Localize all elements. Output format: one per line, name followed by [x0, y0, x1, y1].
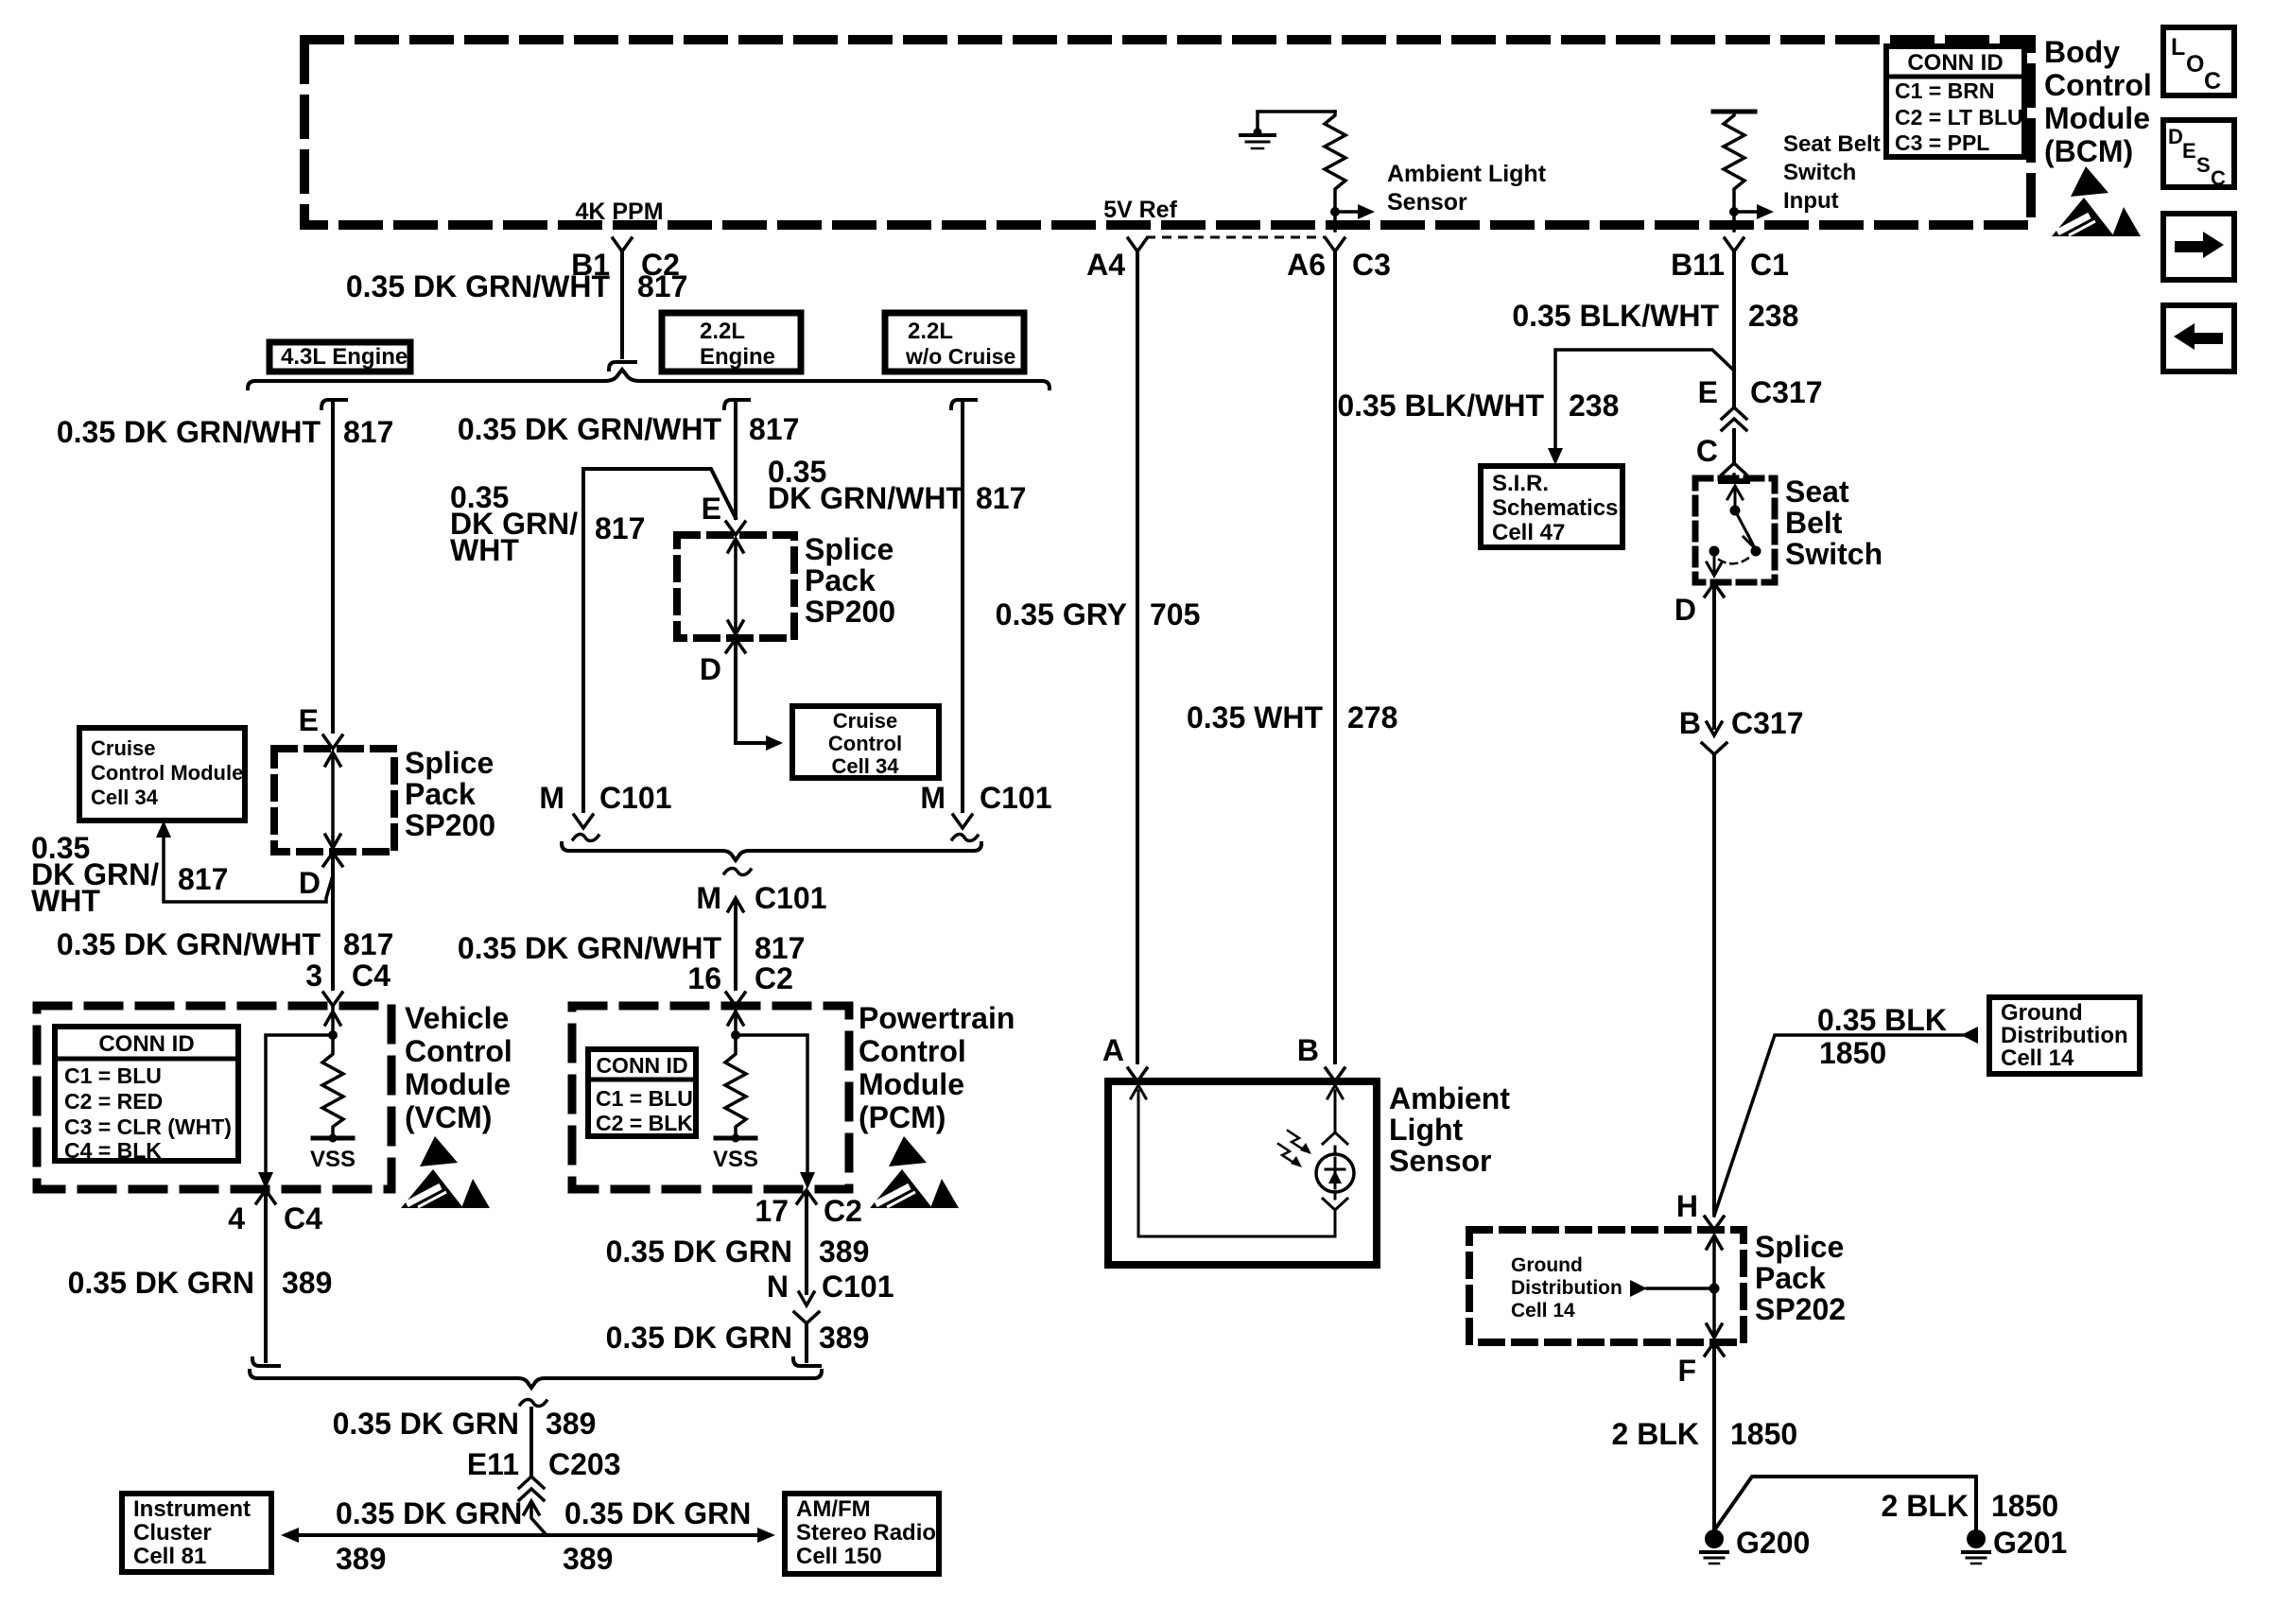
svg-text:389: 389: [819, 1235, 869, 1269]
svg-text:(BCM): (BCM): [2044, 134, 2133, 168]
svg-text:E: E: [1698, 375, 1718, 409]
svg-text:C101: C101: [980, 781, 1052, 815]
svg-text:0.35 WHT: 0.35 WHT: [1187, 700, 1323, 734]
svg-text:817: 817: [749, 412, 799, 446]
svg-text:Cell 81: Cell 81: [133, 1544, 206, 1569]
svg-text:C: C: [2204, 68, 2221, 95]
svg-text:C317: C317: [1750, 375, 1823, 409]
svg-text:Splice: Splice: [1755, 1230, 1844, 1264]
svg-text:C317: C317: [1731, 706, 1804, 740]
svg-text:E: E: [2182, 139, 2196, 163]
svg-text:Cruise: Cruise: [91, 736, 155, 760]
svg-text:Cell 14: Cell 14: [2001, 1045, 2074, 1071]
svg-text:2.2L: 2.2L: [700, 319, 745, 344]
svg-text:C3: C3: [1352, 248, 1391, 282]
svg-text:Control: Control: [859, 1034, 966, 1068]
svg-text:0.35 BLK/WHT: 0.35 BLK/WHT: [1512, 299, 1719, 333]
svg-text:E11: E11: [467, 1447, 519, 1481]
svg-text:Splice: Splice: [405, 746, 494, 780]
svg-text:0.35 DK GRN: 0.35 DK GRN: [606, 1235, 792, 1269]
svg-text:0.35 DK GRN/WHT: 0.35 DK GRN/WHT: [458, 412, 722, 446]
svg-text:Cell 34: Cell 34: [832, 754, 900, 778]
svg-text:F: F: [1677, 1354, 1696, 1388]
svg-text:2 BLK: 2 BLK: [1882, 1489, 1969, 1523]
svg-text:C101: C101: [599, 781, 672, 815]
svg-text:Distribution: Distribution: [2001, 1023, 2128, 1048]
svg-text:4: 4: [228, 1201, 245, 1235]
svg-text:Distribution: Distribution: [1511, 1277, 1622, 1299]
svg-text:O: O: [2186, 51, 2204, 78]
svg-text:C4 = BLK: C4 = BLK: [64, 1138, 162, 1163]
svg-text:0.35 DK GRN/WHT: 0.35 DK GRN/WHT: [57, 927, 321, 961]
svg-text:389: 389: [819, 1321, 869, 1355]
svg-text:Vehicle: Vehicle: [405, 1001, 509, 1035]
svg-text:G201: G201: [1993, 1526, 2067, 1560]
svg-text:Module: Module: [405, 1067, 511, 1101]
svg-text:Cell 34: Cell 34: [91, 786, 159, 809]
svg-text:5V Ref: 5V Ref: [1103, 197, 1177, 223]
svg-text:N: N: [767, 1270, 789, 1304]
svg-text:Ground: Ground: [2001, 1000, 2083, 1026]
svg-text:C1 = BLU: C1 = BLU: [64, 1063, 162, 1088]
svg-text:Control: Control: [405, 1034, 512, 1068]
svg-text:Cluster: Cluster: [133, 1520, 212, 1546]
svg-text:0.35 DK GRN/WHT: 0.35 DK GRN/WHT: [346, 269, 611, 303]
svg-text:Stereo Radio: Stereo Radio: [796, 1520, 936, 1546]
svg-text:WHT: WHT: [31, 884, 100, 918]
svg-text:Switch: Switch: [1785, 537, 1883, 571]
svg-text:(VCM): (VCM): [405, 1100, 492, 1134]
svg-text:E: E: [299, 703, 319, 737]
svg-text:L: L: [2171, 34, 2185, 60]
svg-text:0.35 DK GRN/WHT: 0.35 DK GRN/WHT: [57, 415, 321, 449]
svg-text:4K PPM: 4K PPM: [575, 199, 663, 225]
svg-text:CONN ID: CONN ID: [98, 1031, 194, 1057]
svg-text:A: A: [1102, 1033, 1124, 1067]
svg-text:Control Module: Control Module: [91, 761, 243, 785]
svg-text:A6: A6: [1287, 248, 1326, 282]
svg-text:Module: Module: [2044, 101, 2150, 135]
svg-text:3: 3: [305, 959, 322, 993]
svg-text:Light: Light: [1389, 1113, 1464, 1147]
svg-text:C4: C4: [352, 959, 390, 993]
svg-text:DK GRN/WHT: DK GRN/WHT: [768, 481, 964, 515]
svg-text:817: 817: [637, 269, 687, 303]
svg-text:B: B: [1297, 1033, 1319, 1067]
svg-text:0.35 GRY: 0.35 GRY: [996, 597, 1127, 631]
svg-text:2 BLK: 2 BLK: [1612, 1417, 1699, 1451]
svg-text:C101: C101: [822, 1270, 894, 1304]
svg-text:238: 238: [1569, 389, 1619, 423]
svg-text:Cell 150: Cell 150: [796, 1544, 882, 1569]
svg-text:Instrument: Instrument: [133, 1496, 251, 1522]
svg-text:1850: 1850: [1819, 1036, 1886, 1070]
svg-text:Belt: Belt: [1785, 506, 1843, 540]
svg-text:C2 = LT BLU: C2 = LT BLU: [1895, 105, 2023, 130]
svg-text:S.I.R.: S.I.R.: [1492, 471, 1549, 496]
svg-text:C4: C4: [284, 1201, 322, 1235]
svg-text:Pack: Pack: [1755, 1261, 1826, 1295]
svg-text:S: S: [2196, 153, 2211, 177]
svg-text:Module: Module: [859, 1067, 964, 1101]
svg-text:Seat: Seat: [1785, 475, 1849, 509]
svg-text:C2: C2: [824, 1194, 862, 1228]
svg-text:VSS: VSS: [713, 1147, 758, 1172]
svg-text:Ambient Light: Ambient Light: [1387, 161, 1547, 187]
svg-text:Powertrain: Powertrain: [859, 1001, 1015, 1035]
svg-text:Pack: Pack: [405, 777, 476, 811]
svg-text:389: 389: [336, 1542, 386, 1576]
svg-text:389: 389: [282, 1266, 332, 1300]
svg-text:Pack: Pack: [805, 563, 876, 597]
svg-text:C1: C1: [1750, 248, 1789, 282]
svg-text:SP202: SP202: [1755, 1292, 1846, 1326]
svg-text:0.35 DK GRN: 0.35 DK GRN: [606, 1321, 792, 1355]
svg-text:0.35 DK GRN: 0.35 DK GRN: [564, 1496, 751, 1530]
svg-text:Sensor: Sensor: [1387, 189, 1467, 216]
svg-text:E: E: [702, 492, 721, 526]
svg-text:VSS: VSS: [310, 1147, 356, 1172]
svg-text:C203: C203: [548, 1447, 621, 1481]
svg-text:0.35 DK GRN: 0.35 DK GRN: [336, 1496, 522, 1530]
svg-text:M: M: [920, 781, 946, 815]
svg-text:Splice: Splice: [805, 532, 894, 566]
svg-text:817: 817: [595, 511, 645, 545]
svg-text:M: M: [696, 881, 721, 915]
svg-text:Engine: Engine: [700, 344, 775, 370]
svg-text:0.35 BLK: 0.35 BLK: [1817, 1003, 1947, 1037]
svg-text:D: D: [700, 652, 721, 686]
svg-text:(PCM): (PCM): [859, 1100, 946, 1134]
svg-text:G200: G200: [1736, 1526, 1810, 1560]
svg-text:817: 817: [755, 931, 805, 965]
svg-text:C2: C2: [755, 961, 793, 995]
svg-text:17: 17: [755, 1194, 789, 1228]
svg-text:CONN ID: CONN ID: [596, 1053, 687, 1078]
svg-text:Seat Belt: Seat Belt: [1783, 131, 1881, 157]
svg-text:C: C: [1696, 434, 1718, 468]
svg-text:w/o Cruise: w/o Cruise: [905, 344, 1015, 369]
svg-text:16: 16: [687, 961, 721, 995]
svg-text:Ground: Ground: [1511, 1254, 1583, 1276]
svg-text:4.3L Engine: 4.3L Engine: [281, 344, 408, 370]
svg-text:C101: C101: [755, 881, 827, 915]
svg-text:Ambient: Ambient: [1389, 1081, 1510, 1115]
svg-text:0.35 BLK/WHT: 0.35 BLK/WHT: [1337, 389, 1544, 423]
svg-text:D: D: [1674, 593, 1696, 627]
svg-text:C3 = CLR (WHT): C3 = CLR (WHT): [64, 1114, 232, 1139]
svg-text:Cruise: Cruise: [833, 709, 897, 733]
svg-text:Sensor: Sensor: [1389, 1144, 1491, 1178]
svg-text:Input: Input: [1783, 188, 1839, 214]
svg-text:B: B: [1679, 706, 1701, 740]
svg-text:Cell 47: Cell 47: [1492, 520, 1565, 545]
svg-text:0.35 DK GRN/WHT: 0.35 DK GRN/WHT: [458, 931, 722, 965]
svg-text:A4: A4: [1086, 248, 1125, 282]
svg-text:1850: 1850: [1730, 1417, 1797, 1451]
svg-text:389: 389: [563, 1542, 613, 1576]
svg-text:C2 = BLK: C2 = BLK: [596, 1111, 693, 1135]
svg-text:1850: 1850: [1991, 1489, 2058, 1523]
svg-text:D: D: [299, 866, 321, 900]
svg-text:238: 238: [1748, 299, 1798, 333]
svg-text:Control: Control: [2044, 68, 2152, 102]
svg-text:C2 = RED: C2 = RED: [64, 1089, 163, 1114]
svg-text:H: H: [1676, 1189, 1698, 1223]
svg-text:0.35 DK GRN: 0.35 DK GRN: [68, 1266, 254, 1300]
svg-text:Body: Body: [2044, 35, 2120, 69]
svg-text:Switch: Switch: [1783, 160, 1856, 185]
svg-text:Schematics: Schematics: [1492, 495, 1618, 521]
svg-text:C: C: [2211, 166, 2226, 190]
svg-text:Control: Control: [828, 732, 902, 755]
svg-text:C1 = BLU: C1 = BLU: [596, 1086, 693, 1111]
svg-text:817: 817: [343, 415, 393, 449]
svg-text:AM/FM: AM/FM: [796, 1496, 871, 1522]
svg-text:389: 389: [546, 1407, 596, 1441]
svg-text:705: 705: [1150, 597, 1200, 631]
svg-text:B11: B11: [1671, 248, 1725, 282]
svg-text:817: 817: [178, 862, 228, 896]
svg-text:278: 278: [1347, 700, 1397, 734]
svg-text:C1 = BRN: C1 = BRN: [1895, 78, 1994, 103]
svg-text:C3 = PPL: C3 = PPL: [1895, 130, 1989, 155]
svg-text:WHT: WHT: [450, 533, 519, 567]
svg-text:0.35 DK GRN: 0.35 DK GRN: [333, 1407, 519, 1441]
svg-text:SP200: SP200: [805, 595, 895, 629]
svg-text:CONN ID: CONN ID: [1907, 50, 2003, 76]
svg-text:SP200: SP200: [405, 808, 495, 842]
svg-text:817: 817: [976, 481, 1026, 515]
svg-text:Cell 14: Cell 14: [1511, 1300, 1575, 1322]
svg-text:2.2L: 2.2L: [908, 319, 953, 344]
svg-text:M: M: [539, 781, 564, 815]
svg-text:817: 817: [343, 927, 393, 961]
svg-text:D: D: [2168, 125, 2183, 148]
